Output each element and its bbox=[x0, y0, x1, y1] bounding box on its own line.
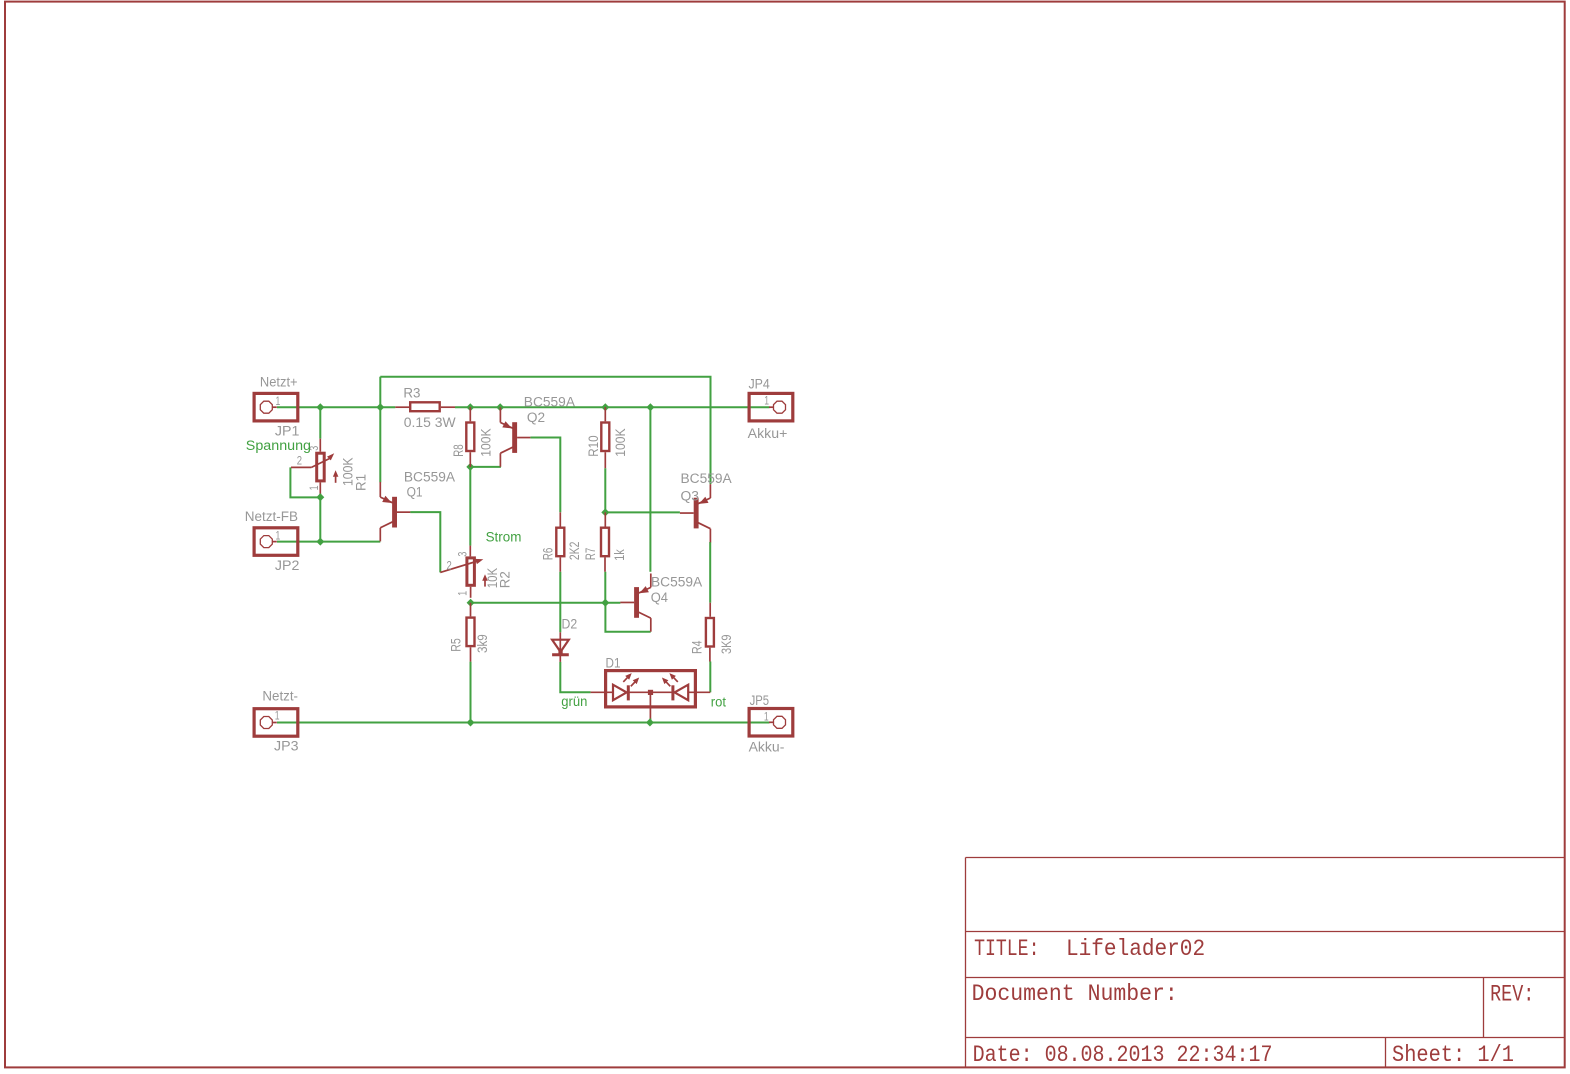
svg-text:JP4: JP4 bbox=[749, 376, 771, 391]
potentiometer R2 body bbox=[467, 558, 475, 585]
svg-text:0.15 3W: 0.15 3W bbox=[404, 415, 456, 430]
R1 adjust arrow bbox=[335, 474, 337, 483]
junction top-rail/R3 bbox=[376, 403, 384, 411]
svg-text:JP1: JP1 bbox=[275, 423, 300, 438]
svg-text:Netzt+: Netzt+ bbox=[260, 375, 298, 390]
svg-text:1: 1 bbox=[764, 709, 769, 723]
svg-text:R7: R7 bbox=[583, 548, 598, 560]
wire R1 top bbox=[319, 407, 321, 439]
svg-text:R1: R1 bbox=[354, 474, 369, 491]
svg-text:grün: grün bbox=[561, 694, 587, 709]
wire Q2 base to R6 bbox=[530, 438, 560, 513]
transistor Q3 bbox=[694, 498, 699, 529]
junction R10/R7/Q3 bbox=[601, 508, 609, 516]
svg-text:1: 1 bbox=[764, 394, 769, 408]
svg-text:JP5: JP5 bbox=[750, 693, 770, 708]
wire R4 to D1 bbox=[709, 662, 711, 693]
svg-text:Lifelader02: Lifelader02 bbox=[1066, 936, 1205, 962]
junction R5/rail bbox=[467, 719, 475, 727]
svg-text:rot: rot bbox=[711, 694, 726, 709]
svg-text:BC559A: BC559A bbox=[524, 395, 575, 410]
junction Q2 emitter bbox=[496, 403, 504, 411]
svg-text:100K: 100K bbox=[479, 428, 494, 456]
wire net N+ top rail bbox=[380, 377, 710, 484]
junction Netzt-FB bbox=[316, 538, 324, 546]
transistor Q1 bbox=[392, 497, 397, 528]
R2 adjust arrow bbox=[484, 578, 486, 587]
junction Q4 feed bbox=[646, 403, 654, 411]
junction R1 bottom bbox=[316, 493, 324, 501]
svg-text:2: 2 bbox=[297, 454, 303, 468]
transistor Q4 bbox=[634, 587, 639, 618]
wire Q3 collector to R4 bbox=[709, 542, 711, 603]
resistor R4 bbox=[706, 618, 714, 647]
svg-text:R6: R6 bbox=[541, 548, 556, 560]
resistor R6 bbox=[556, 528, 564, 557]
svg-text:1: 1 bbox=[307, 485, 321, 490]
wire R5 bottom bbox=[470, 662, 472, 723]
potentiometer R1 body bbox=[317, 453, 325, 481]
svg-text:1: 1 bbox=[455, 590, 469, 595]
D2 apex blob bbox=[558, 650, 562, 655]
svg-text:BC559A: BC559A bbox=[404, 470, 455, 485]
svg-text:3: 3 bbox=[455, 551, 469, 556]
wire Q4 emitter drop bbox=[649, 407, 651, 572]
svg-text:1: 1 bbox=[276, 394, 281, 408]
wire R8 to R2 pin3 bbox=[469, 467, 471, 546]
svg-text:Q1: Q1 bbox=[407, 485, 423, 500]
junction R3/R8 bbox=[466, 403, 474, 411]
svg-text:Sheet: 1/1: Sheet: 1/1 bbox=[1392, 1042, 1514, 1068]
svg-text:Netzt-: Netzt- bbox=[262, 688, 298, 703]
duo-LED D1 bbox=[606, 671, 696, 707]
svg-text:R8: R8 bbox=[451, 444, 466, 456]
wire main rail left bbox=[277, 406, 395, 408]
R2 wiper bbox=[440, 561, 479, 573]
svg-text:100K: 100K bbox=[613, 428, 628, 456]
wire R2 pin1 row bbox=[471, 602, 621, 604]
svg-text:BC559A: BC559A bbox=[651, 574, 702, 589]
svg-text:D2: D2 bbox=[562, 617, 578, 632]
svg-text:BC559A: BC559A bbox=[681, 471, 732, 486]
wire R1 bottom bbox=[319, 494, 321, 542]
connector JP1 Netzt+ bbox=[254, 393, 298, 421]
svg-text:Q2: Q2 bbox=[527, 410, 545, 425]
resistor R3 bbox=[410, 402, 440, 411]
wire R7 bottom bbox=[604, 572, 606, 603]
wire Netzt-FB rail bbox=[277, 541, 380, 543]
wire D2 to D1 bbox=[560, 662, 590, 692]
title block grid bbox=[965, 858, 967, 1068]
svg-text:R4: R4 bbox=[690, 640, 705, 654]
svg-text:Q3: Q3 bbox=[681, 489, 700, 504]
wire R1 wiper loop bbox=[290, 467, 320, 497]
connector JP4 Akku+ bbox=[749, 393, 793, 421]
resistor R8 bbox=[466, 423, 474, 452]
svg-text:TITLE:: TITLE: bbox=[974, 936, 1039, 962]
svg-text:R10: R10 bbox=[586, 435, 601, 456]
svg-text:D1: D1 bbox=[606, 655, 621, 670]
connector JP2 Netzt-FB bbox=[254, 528, 298, 556]
junction Q4 base bbox=[601, 599, 609, 607]
svg-text:JP3: JP3 bbox=[274, 739, 299, 754]
resistor R5 bbox=[467, 618, 475, 647]
svg-text:1: 1 bbox=[275, 709, 280, 723]
svg-text:2: 2 bbox=[447, 559, 453, 573]
wire main rail right bbox=[455, 406, 770, 408]
diode D2 bbox=[559, 632, 561, 662]
svg-text:Q4: Q4 bbox=[651, 590, 669, 605]
wire Q1 base to R2 bbox=[410, 512, 440, 572]
junction R8 bottom bbox=[466, 463, 474, 471]
junction R2/R5 bbox=[467, 599, 475, 607]
svg-text:1k: 1k bbox=[612, 549, 627, 561]
svg-text:Akku+: Akku+ bbox=[748, 426, 788, 441]
wire Q4 collector loop bbox=[605, 603, 650, 632]
wire R10 bottom bbox=[604, 468, 606, 512]
wire top-rail drop bbox=[379, 377, 381, 408]
junction R10 top bbox=[601, 403, 609, 411]
junction JP1/R1 bbox=[316, 403, 324, 411]
wire Q1 emitter feed bbox=[379, 407, 381, 482]
wire node B row to Q3 base bbox=[605, 511, 680, 513]
svg-text:R2: R2 bbox=[498, 571, 513, 588]
resistor R7 bbox=[601, 528, 609, 557]
R1 wiper bbox=[311, 458, 330, 467]
wire bottom rail bbox=[277, 722, 770, 724]
wire D1 center bottom bbox=[649, 719, 651, 723]
svg-text:R5: R5 bbox=[448, 638, 463, 652]
svg-text:2K2: 2K2 bbox=[567, 542, 582, 561]
connector JP5 Akku- bbox=[749, 709, 793, 737]
svg-text:JP2: JP2 bbox=[275, 558, 300, 573]
connector JP3 Netzt- bbox=[254, 709, 298, 737]
junction D1/rail bbox=[646, 719, 654, 727]
svg-text:Akku-: Akku- bbox=[749, 740, 785, 755]
svg-text:Strom: Strom bbox=[486, 530, 522, 545]
svg-text:Spannung: Spannung bbox=[246, 438, 311, 453]
wire R6 to D2 bbox=[559, 572, 561, 633]
svg-text:REV:: REV: bbox=[1490, 982, 1534, 1008]
wire Q2 collector row bbox=[470, 466, 501, 468]
svg-text:R3: R3 bbox=[403, 386, 420, 401]
svg-text:Netzt-FB: Netzt-FB bbox=[245, 509, 298, 524]
svg-text:3K9: 3K9 bbox=[719, 635, 734, 655]
svg-text:Document Number:: Document Number: bbox=[972, 981, 1178, 1007]
svg-text:Date: 08.08.2013 22:34:17: Date: 08.08.2013 22:34:17 bbox=[973, 1042, 1273, 1068]
svg-text:1: 1 bbox=[276, 529, 281, 543]
svg-text:3k9: 3k9 bbox=[475, 634, 490, 653]
resistor R10 bbox=[601, 423, 609, 452]
transistor Q2 bbox=[512, 422, 517, 453]
